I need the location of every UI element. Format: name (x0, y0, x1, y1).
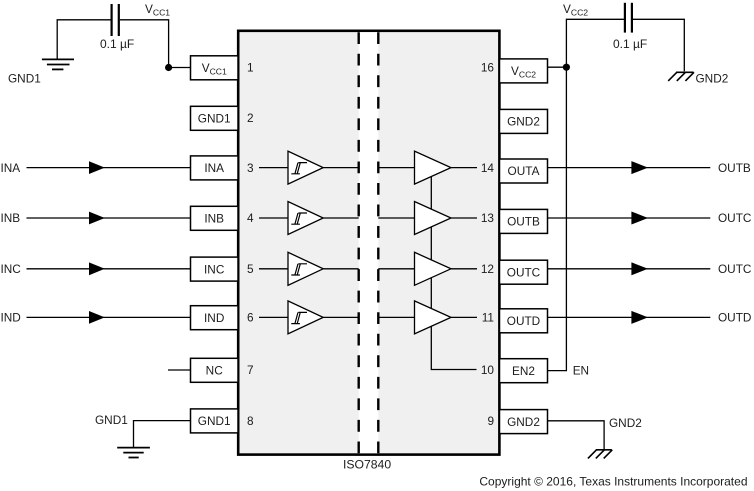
wire: pin 3 stub to schmitt buffer input (259, 167, 288, 169)
wire: EN net vertical (VCC2 junction down to EN corner) (548, 67, 567, 370)
wire: INA input line (27, 167, 191, 169)
isolator IC body U1 ISO7840 (238, 31, 499, 455)
svg-text:NC: NC (206, 364, 224, 378)
svg-text:16: 16 (481, 61, 495, 75)
junction dot node VCC2 (563, 64, 570, 71)
arrow on output row pin 11 (631, 311, 648, 324)
pin 11 box OUTD (right) (500, 309, 548, 333)
arrow on IND input (89, 311, 105, 324)
svg-text:14: 14 (481, 161, 495, 175)
svg-text:10: 10 (481, 363, 495, 377)
output buffer row pin 14 (415, 151, 452, 184)
svg-text:9: 9 (487, 414, 494, 428)
svg-text:GND1: GND1 (198, 414, 231, 428)
wire: schmitt buffer output to barrier row pin 3 (323, 167, 359, 169)
svg-text:INB: INB (1, 211, 21, 225)
wire: C1 right plate to VCC1 corner down to pin 1 (120, 20, 169, 68)
ground GND1 (top left, earth symbol) (42, 59, 74, 69)
pin 3 box INA (left) (191, 156, 239, 180)
wire: schmitt buffer output to barrier row pin 5 (323, 268, 359, 270)
wire: output line row pin 12 (548, 268, 711, 270)
schmitt-trigger input buffer row pin 6 (288, 301, 323, 334)
junction dot node VCC1 (165, 64, 172, 71)
pin 8 box GND1 (left) (191, 409, 239, 433)
svg-text:12: 12 (481, 262, 494, 276)
svg-text:VCC1: VCC1 (145, 2, 170, 17)
arrow on INA input (89, 161, 105, 174)
wire: output buffer to pin 13 stub (451, 217, 477, 219)
svg-text:3: 3 (247, 161, 254, 175)
pin 10 box EN2 (right) (500, 359, 548, 383)
svg-text:6: 6 (247, 311, 254, 325)
svg-text:GND2: GND2 (696, 71, 729, 85)
svg-text:INB: INB (204, 212, 224, 226)
wire: barrier to output buffer input row pin 14 (378, 167, 414, 169)
wire: output buffer to pin 14 stub (451, 167, 477, 169)
svg-text:INA: INA (204, 161, 224, 175)
capacitor C1 left plate (110, 4, 112, 36)
pin 16 box VCC2 (right) (500, 59, 548, 83)
svg-text:8: 8 (247, 414, 254, 428)
wire: pin 16 to VCC2 junction (548, 66, 567, 68)
ground GND2 (top right, chassis symbol) (668, 72, 694, 81)
svg-text:VCC2: VCC2 (563, 2, 588, 17)
svg-text:INC: INC (1, 262, 22, 276)
wire: INC input line (27, 268, 191, 270)
svg-text:OUTC: OUTC (718, 262, 752, 276)
svg-text:INA: INA (1, 161, 21, 175)
svg-text:INC: INC (204, 262, 225, 276)
svg-text:GND2: GND2 (507, 115, 540, 129)
pin 13 box OUTB (right) (500, 209, 548, 233)
pin 7 box NC (left) (191, 358, 239, 382)
wire: output line row pin 13 (548, 217, 711, 219)
svg-text:OUTC: OUTC (507, 265, 541, 279)
wire: C2 right plate to GND2 drop (633, 19, 684, 71)
capacitor C2 right plate (631, 3, 633, 33)
svg-text:7: 7 (247, 363, 254, 377)
svg-text:IND: IND (204, 311, 224, 325)
ground GND2 (bottom right, chassis symbol) (588, 450, 612, 459)
svg-text:GND1: GND1 (95, 413, 128, 427)
ground GND1 (bottom left, earth symbol) (117, 448, 150, 458)
svg-text:ISO7840: ISO7840 (343, 457, 391, 471)
pin 5 box INC (left) (191, 257, 239, 281)
schmitt-trigger input buffer row pin 5 (288, 252, 323, 285)
isolation barrier white band (359, 32, 379, 453)
pin 4 box INB (left) (191, 206, 239, 230)
pin 2 box GND1 (left) (191, 106, 239, 130)
arrow on output row pin 12 (631, 262, 648, 275)
svg-text:GND2: GND2 (609, 416, 642, 430)
pin 14 box OUTA (right) (500, 159, 548, 183)
internal EN net wire (vertical buffer chain to pin 10) (431, 177, 476, 370)
svg-text:IND: IND (1, 311, 21, 325)
svg-text:OUTD: OUTD (718, 311, 751, 325)
wire: output line row pin 14 (548, 167, 711, 169)
wire: output buffer to pin 12 stub (451, 268, 477, 270)
isolation barrier dashed line left (358, 32, 360, 453)
svg-text:Copyright © 2016, Texas Instru: Copyright © 2016, Texas Instruments Inco… (479, 475, 747, 489)
pin 15 box GND2 (right) (500, 109, 548, 133)
svg-text:GND2: GND2 (507, 415, 540, 429)
wire: VCC2 riser to C2 left plate (566, 19, 624, 67)
svg-text:2: 2 (247, 111, 254, 125)
wire: GND1 riser to C1 left plate (57, 20, 110, 59)
svg-text:OUTD: OUTD (507, 314, 540, 328)
capacitor C1 right plate (118, 4, 120, 36)
wire: schmitt buffer output to barrier row pin 4 (323, 217, 359, 219)
capacitor C2 left plate (624, 3, 626, 33)
pin 6 box IND (left) (191, 306, 239, 330)
wire: pin 5 stub to schmitt buffer input (259, 268, 288, 270)
wire: pin 6 stub to schmitt buffer input (259, 316, 288, 318)
arrow on output row pin 13 (631, 212, 648, 225)
wire: NC pin 7 stub (168, 369, 191, 371)
svg-text:OUTC: OUTC (718, 211, 752, 225)
svg-text:0.1 µF: 0.1 µF (613, 37, 647, 51)
svg-text:4: 4 (247, 211, 254, 225)
svg-text:GND1: GND1 (198, 112, 231, 126)
output buffer row pin 13 (415, 202, 452, 235)
svg-text:11: 11 (482, 311, 494, 325)
wire: output buffer to pin 11 stub (451, 316, 477, 318)
svg-text:0.1 µF: 0.1 µF (100, 37, 134, 51)
wire: barrier to output buffer input row pin 11 (378, 316, 414, 318)
isolation barrier dashed line right (377, 32, 379, 453)
svg-text:EN2: EN2 (512, 364, 535, 378)
pin 1 box VCC1 (left) (191, 56, 239, 80)
svg-text:5: 5 (247, 262, 254, 276)
svg-text:EN: EN (573, 364, 589, 378)
pin 12 box OUTC (right) (500, 260, 548, 284)
wire: schmitt buffer output to barrier row pin 6 (323, 316, 359, 318)
svg-text:1: 1 (247, 61, 254, 75)
svg-text:OUTA: OUTA (508, 164, 540, 178)
wire: pin 8 GND1 to ground (134, 421, 191, 448)
output buffer row pin 11 (415, 301, 452, 334)
pin 9 box GND2 (right) (500, 410, 548, 434)
wire: pin 9 GND2 to ground (548, 421, 604, 450)
wire: junction to VCC1 pin box (169, 67, 191, 69)
output buffer row pin 12 (415, 252, 452, 285)
svg-text:GND1: GND1 (8, 71, 41, 85)
schmitt-trigger input buffer row pin 3 (288, 151, 323, 184)
wire: pin 4 stub to schmitt buffer input (259, 217, 288, 219)
wire: IND input line (27, 316, 191, 318)
schmitt-trigger input buffer row pin 4 (288, 202, 323, 235)
arrow on INC input (89, 262, 105, 275)
svg-text:13: 13 (481, 211, 495, 225)
svg-text:OUTB: OUTB (718, 161, 751, 175)
wire: barrier to output buffer input row pin 13 (378, 217, 414, 219)
arrow on output row pin 14 (631, 161, 648, 174)
wire: barrier to output buffer input row pin 12 (378, 268, 414, 270)
wire: INB input line (27, 217, 191, 219)
arrow on INB input (89, 212, 105, 225)
svg-text:OUTB: OUTB (507, 215, 540, 229)
wire: output line row pin 11 (548, 316, 711, 318)
